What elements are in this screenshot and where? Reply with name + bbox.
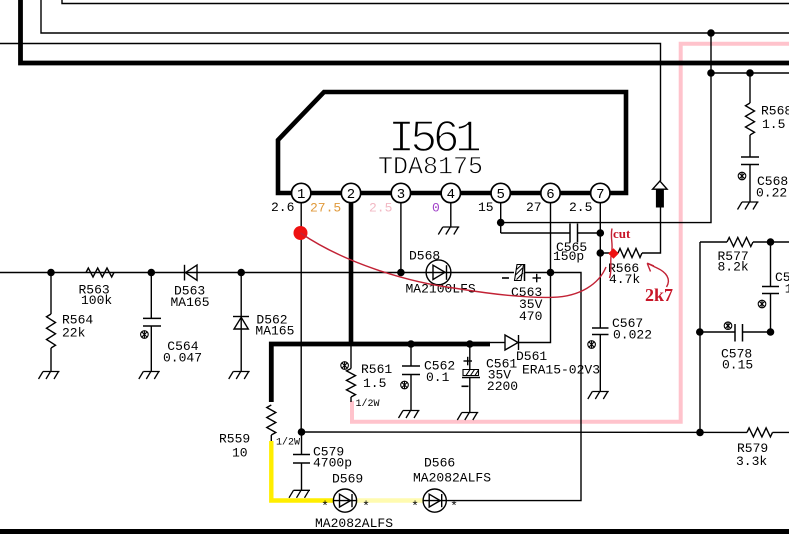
junction pin6/C563 node xyxy=(547,269,555,277)
svg-text:D569: D569 xyxy=(332,472,363,487)
resistor R568 1.5 xyxy=(749,73,751,103)
resistor R577 8.2k xyxy=(700,241,727,243)
diode D569 MA2082ALFS xyxy=(333,500,357,502)
wire pin6 node to feedback riser xyxy=(446,273,581,501)
diode D563 MA165 xyxy=(185,265,198,281)
ground R564 xyxy=(39,372,60,380)
svg-text:1: 1 xyxy=(297,187,305,203)
capacitor C567 0.022 xyxy=(592,327,609,329)
svg-text:10: 10 xyxy=(232,446,248,461)
svg-text:4700p: 4700p xyxy=(313,456,352,471)
svg-text:2200: 2200 xyxy=(487,379,518,394)
ground pin4 xyxy=(438,227,459,235)
svg-text:3.3k: 3.3k xyxy=(736,454,767,469)
svg-text:0.15: 0.15 xyxy=(722,358,753,373)
junction top bus node xyxy=(707,29,715,37)
svg-text:100k: 100k xyxy=(81,293,112,308)
svg-text:MA2100LFS: MA2100LFS xyxy=(406,282,476,297)
junction D562 node xyxy=(237,269,245,277)
svg-text:MA2082ALFS: MA2082ALFS xyxy=(413,471,491,486)
junction R577 node xyxy=(767,238,775,246)
wire top bus 3 xyxy=(0,44,661,182)
junction R568 top node xyxy=(746,69,754,77)
svg-text:150p: 150p xyxy=(553,249,584,264)
svg-text:TDA8175: TDA8175 xyxy=(378,153,483,182)
junction C564 node xyxy=(148,269,156,277)
wire pin1 down xyxy=(300,203,302,432)
red annotation curve xyxy=(301,233,607,297)
wire top bus 1 xyxy=(62,0,789,4)
capacitor C576 (clipped at edge) xyxy=(770,242,772,287)
junction pin3 node xyxy=(397,269,405,277)
svg-text:4.7k: 4.7k xyxy=(609,272,640,287)
wire main net left xyxy=(0,272,514,274)
wire pin4 down xyxy=(450,203,452,227)
svg-text:1.5: 1.5 xyxy=(363,376,386,391)
pin 6 xyxy=(541,183,560,202)
ground C567 xyxy=(588,392,609,400)
red annotation: diamond on R566 wire xyxy=(608,248,618,258)
thick rail to R559 xyxy=(271,344,490,402)
svg-text:R561: R561 xyxy=(361,362,392,377)
wire R568 feed xyxy=(711,72,789,74)
diode D562 MA165 xyxy=(240,273,242,372)
wire feedback long net xyxy=(301,431,747,433)
pin 1 xyxy=(292,183,311,202)
svg-text:*: * xyxy=(362,499,370,514)
svg-text:1: 1 xyxy=(785,282,789,297)
junction pin1/C579 node xyxy=(298,428,306,436)
ground C564 xyxy=(139,372,160,380)
svg-text:2k7: 2k7 xyxy=(645,285,673,305)
svg-text:D566: D566 xyxy=(424,456,455,471)
junction R568 bus node xyxy=(707,69,715,77)
pin 3 xyxy=(391,183,410,202)
svg-text:22k: 22k xyxy=(62,326,86,341)
junction C578 left node xyxy=(696,328,704,336)
svg-text:ERA15-02V3: ERA15-02V3 xyxy=(522,363,600,378)
wire pin6 down to D561 xyxy=(519,203,551,343)
svg-text:1.5: 1.5 xyxy=(762,117,785,132)
capacitor C568 0.22 xyxy=(741,156,759,158)
svg-text:2.5: 2.5 xyxy=(569,200,592,215)
ground C568 xyxy=(738,202,759,210)
svg-text:0.047: 0.047 xyxy=(163,351,202,366)
resistor R563 xyxy=(86,268,114,277)
resistor R559 10 1/2W xyxy=(267,405,276,435)
junction R579 node xyxy=(696,429,704,437)
svg-text:6: 6 xyxy=(546,187,554,203)
wire top bus 2 xyxy=(41,0,789,33)
ground C562 xyxy=(399,411,420,419)
svg-text:3: 3 xyxy=(397,187,405,203)
svg-text:*: * xyxy=(411,499,419,514)
svg-text:*: * xyxy=(450,499,458,514)
wire C563 to pin6 node xyxy=(525,272,551,274)
ground C579 xyxy=(289,490,310,498)
wire pin5 down xyxy=(500,203,502,233)
junction R566/pin7 node xyxy=(597,249,605,257)
thick border bottom xyxy=(0,529,789,534)
junction C578 right node xyxy=(767,328,775,336)
diode D568 MA2100LFS xyxy=(426,260,451,285)
svg-text:1/2W: 1/2W xyxy=(356,398,380,410)
capacitor C565 150p xyxy=(501,232,570,234)
capacitor C564 xyxy=(143,318,161,326)
svg-text:2: 2 xyxy=(347,187,355,203)
capacitor C561 35V 2200 xyxy=(469,344,471,370)
resistor R564 xyxy=(47,314,56,348)
capacitor C563 35V 470 xyxy=(515,265,524,281)
capacitor C579 4700p xyxy=(301,432,303,455)
resistor R561 1.5 1/2W xyxy=(350,344,352,369)
svg-text:15: 15 xyxy=(478,200,494,215)
svg-text:MA2082ALFS: MA2082ALFS xyxy=(315,516,393,531)
ground C561 xyxy=(457,413,478,421)
svg-text:MA165: MA165 xyxy=(171,295,210,310)
svg-text:5: 5 xyxy=(496,187,504,203)
capacitor C578 0.15 xyxy=(700,331,735,333)
svg-text:R559: R559 xyxy=(219,432,250,447)
pin 5 xyxy=(491,183,510,202)
svg-text:2.5: 2.5 xyxy=(369,201,392,216)
off-page arrow connector xyxy=(653,181,668,189)
svg-text:0.22: 0.22 xyxy=(756,186,787,201)
junction R564 node xyxy=(47,269,55,277)
svg-text:8.2k: 8.2k xyxy=(718,260,749,275)
wire node pin5 to right riser xyxy=(501,33,711,223)
yellow highlighted wire from R559 to D569 xyxy=(271,441,333,501)
thick bus wire top xyxy=(21,0,789,63)
wire pin7 down to C567 xyxy=(599,203,601,328)
svg-text:D568: D568 xyxy=(409,249,440,264)
svg-text:cut: cut xyxy=(613,226,631,241)
junction pin5 node xyxy=(497,219,505,227)
diode D566 MA2082ALFS xyxy=(423,500,446,502)
svg-text:2.6: 2.6 xyxy=(271,200,294,215)
svg-text:27.5: 27.5 xyxy=(310,201,341,216)
pin 4 xyxy=(441,183,460,202)
resistor R579 3.3k xyxy=(747,428,773,437)
wire pin3 down xyxy=(400,203,402,273)
pin 2 xyxy=(341,183,360,202)
op-amp/IC U I561 TDA8175 outline xyxy=(278,92,626,193)
svg-text:4: 4 xyxy=(447,187,455,203)
red annotation: big dot at pin1 xyxy=(294,226,308,240)
svg-text:470: 470 xyxy=(519,309,542,324)
thick wire pin2 down xyxy=(349,203,354,344)
junction C565/pin7 node xyxy=(597,229,605,237)
svg-text:*: * xyxy=(321,499,329,514)
capacitor C562 0.1 xyxy=(410,344,412,366)
svg-text:MA165: MA165 xyxy=(255,324,294,339)
resistor R566 4.7k xyxy=(600,252,618,254)
pink highlight net xyxy=(352,44,789,422)
svg-text:0.1: 0.1 xyxy=(426,370,450,385)
pin 7 xyxy=(591,183,610,202)
wire R577 left leg down xyxy=(699,242,701,432)
junction C562 rail node xyxy=(407,340,415,348)
svg-text:0: 0 xyxy=(432,201,440,216)
pale yellow wire between D569 and D566 xyxy=(357,498,423,502)
red annotation: cut squiggle xyxy=(610,229,613,279)
junction C561 rail node xyxy=(466,340,474,348)
svg-text:27: 27 xyxy=(526,200,542,215)
red annotation: 2k7 arrow xyxy=(647,263,668,287)
diode D561 ERA15-02V3 xyxy=(490,342,505,344)
svg-text:7: 7 xyxy=(596,187,604,203)
svg-text:0.022: 0.022 xyxy=(613,328,652,343)
svg-text:1/2W: 1/2W xyxy=(276,437,300,449)
ground D562 xyxy=(229,372,250,380)
